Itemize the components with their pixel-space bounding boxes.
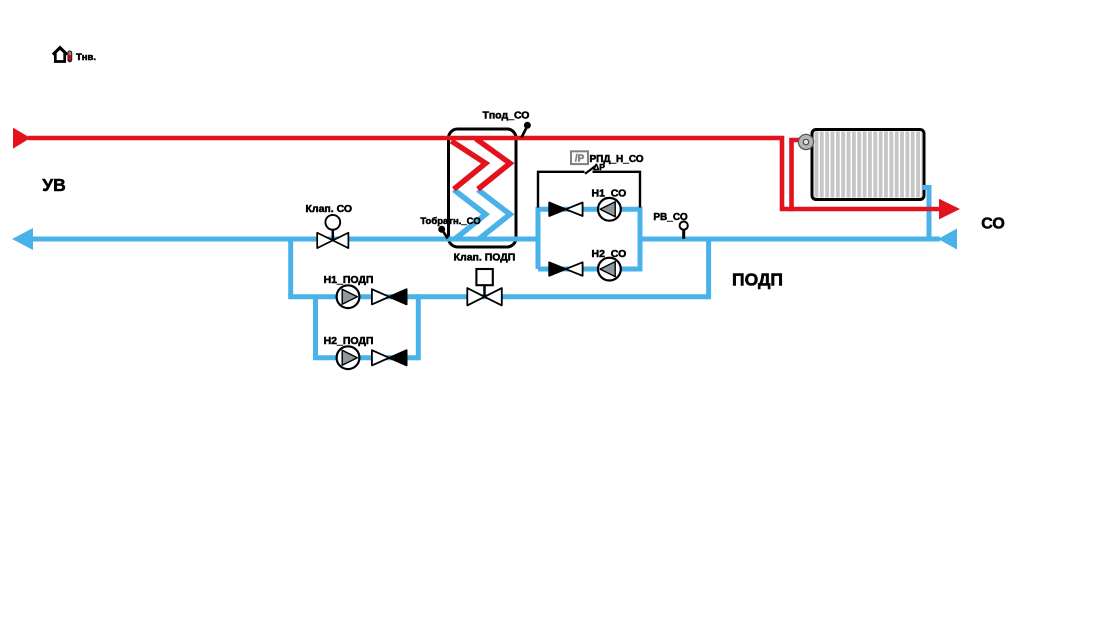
wire: CO pump branch H2 [538, 267, 640, 272]
wire: riser to ПОДП line (left) [288, 239, 293, 297]
arrow: УВ return (points left) [12, 228, 33, 250]
wire: blue return main left segment [30, 237, 538, 242]
svg-text:Клап. ПОДП: Клап. ПОДП [454, 252, 516, 264]
check valve H2 ПОДП branch [372, 350, 407, 365]
dP switch tick [585, 166, 596, 174]
svg-text:Клап. СО: Клап. СО [306, 203, 353, 215]
svg-text:Н2_ПОДП: Н2_ПОДП [324, 335, 374, 347]
valve Клап. СО stem [332, 230, 335, 240]
outdoor temperature icon: thermometer [68, 51, 72, 62]
sensor РВ_СО stem [682, 230, 685, 239]
wire: H2 ПОДП bypass left riser [313, 297, 318, 358]
sensor Тпод_СО bulb [524, 122, 531, 129]
wire: red supply main [28, 138, 940, 209]
svg-text:СО: СО [981, 216, 1005, 233]
svg-text:Тпод_СО: Тпод_СО [483, 110, 530, 122]
wire: blue return main right segment [640, 237, 940, 242]
svg-text:Н1_ПОДП: Н1_ПОДП [324, 274, 374, 286]
svg-text:Тобратн._СО: Тобратн._СО [420, 216, 480, 227]
arrow: СО supply outlet (points right) [939, 199, 960, 220]
wire: radiator return stub [922, 185, 929, 190]
radiator thermostatic valve [798, 134, 813, 149]
valve Клап. СО actuator circle [325, 215, 340, 230]
valve Клап. ПОДП stem [483, 285, 486, 296]
sensor РВ_СО bulb [680, 222, 688, 230]
radiator fins [815, 132, 923, 198]
heat exchanger body [449, 129, 517, 247]
valve Клап. ПОДП bowtie [467, 288, 502, 305]
pump Н1_ПОДП [337, 285, 360, 308]
svg-text:УВ: УВ [42, 175, 66, 195]
sensor Тобратн._СО bulb [438, 226, 445, 233]
sensor Тпод_СО stem [522, 128, 527, 138]
pressure relay icon /P [571, 151, 588, 164]
wire: ПОДП line [288, 294, 708, 299]
arrow: СО return inlet (points left) [938, 229, 957, 250]
wire: radiator feed branch [792, 140, 807, 211]
wire: H2 ПОДП bypass right riser [416, 294, 421, 360]
valve Клап. ПОДП actuator box [476, 269, 492, 285]
svg-text:РВ_СО: РВ_СО [653, 212, 687, 223]
svg-text:ПОДП: ПОДП [732, 270, 783, 290]
wire: CO pump group left manifold [536, 207, 541, 269]
svg-text:Тнв.: Тнв. [76, 52, 96, 63]
wire: CO pump group right manifold [638, 207, 643, 272]
wire: riser from ПОДП line to return main [706, 239, 711, 299]
pump Н1_СО [598, 198, 621, 221]
wire: H2 ПОДП branch [313, 355, 418, 360]
dP sensing loop [538, 172, 640, 208]
valve Клап. СО bowtie [317, 233, 348, 248]
svg-text:Н1_СО: Н1_СО [592, 188, 627, 200]
sensor Тобратн._СО stem [443, 232, 448, 239]
red zigzag 1 in exchanger [451, 141, 485, 189]
pump Н2_СО [598, 258, 621, 281]
wire: radiator return drop [927, 185, 932, 239]
radiator body [812, 130, 924, 200]
wire: CO pump branch H1 [538, 207, 640, 212]
svg-text:/P: /P [575, 154, 585, 165]
check valve ПОДП line [372, 289, 407, 304]
check valve СО branch H2 [549, 262, 582, 276]
svg-text:РПД_Н_СО: РПД_Н_СО [590, 154, 644, 165]
pump Н2_ПОДП [337, 346, 360, 369]
check valve СО branch H1 [549, 203, 582, 217]
svg-text:Н2_СО: Н2_СО [592, 248, 627, 260]
outdoor temperature icon: house [55, 53, 64, 61]
red zigzag 2 in exchanger [476, 139, 510, 190]
blue zigzag 1 in exchanger [454, 190, 486, 239]
blue zigzag 2 in exchanger [478, 190, 510, 239]
arrow: УВ supply inlet (points right) [13, 128, 31, 149]
